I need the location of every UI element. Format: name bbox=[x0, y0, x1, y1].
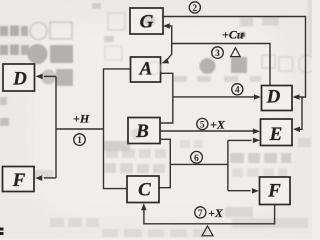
wire: reaction 5 from B right to E upper-left bbox=[160, 130, 256, 132]
wire: reaction 4 tee to D left bbox=[173, 96, 257, 98]
faint bottom text rows bbox=[50, 218, 64, 227]
arrowhead into C bottom (up) bbox=[141, 203, 147, 210]
svg-text:4: 4 bbox=[235, 86, 240, 96]
wire: reaction 7 from F bottom around to C bottom bbox=[144, 205, 275, 224]
svg-text:C: C bbox=[138, 179, 151, 200]
number 3 bbox=[212, 47, 224, 59]
box D left bbox=[3, 64, 35, 91]
wire: left vertical D-F bbox=[55, 76, 57, 177]
arrowhead into E lower-left bbox=[253, 138, 260, 144]
faint text middle-left bbox=[104, 141, 130, 151]
svg-text:F: F bbox=[267, 180, 281, 201]
arrowhead into A right bbox=[162, 58, 170, 63]
svg-text:6: 6 bbox=[194, 154, 199, 164]
wire: branch down into E right side bbox=[297, 97, 303, 129]
number 5 bbox=[197, 118, 208, 129]
wire: left bus from A left down to C left bbox=[104, 69, 131, 189]
box E bbox=[261, 119, 293, 146]
triangle delta (7) bbox=[202, 226, 213, 236]
condition labels bbox=[73, 28, 244, 221]
dark speck left of D-right bbox=[241, 33, 246, 38]
svg-text:G: G bbox=[140, 12, 154, 33]
svg-text:E: E bbox=[269, 124, 283, 145]
arrowhead into G right bbox=[163, 23, 170, 29]
svg-text:B: B bbox=[135, 121, 149, 142]
arrowhead into D left bbox=[254, 94, 261, 100]
filled grey circle bbox=[28, 44, 48, 64]
svg-text:2: 2 bbox=[192, 4, 197, 14]
number 6 bbox=[191, 151, 203, 163]
wire: reaction 2 from G right to D right side bbox=[163, 17, 306, 98]
box C bbox=[127, 176, 159, 203]
wire: into F left bbox=[228, 190, 251, 192]
wire: A right out, trunk down to B top-right bbox=[160, 73, 173, 123]
arrowhead into left F bbox=[35, 175, 42, 181]
svg-text:+H: +H bbox=[73, 112, 90, 126]
triangle delta (3) bbox=[231, 48, 241, 57]
box letters bbox=[12, 12, 283, 202]
svg-text:3: 3 bbox=[215, 49, 220, 59]
svg-text:7: 7 bbox=[198, 209, 203, 219]
box B bbox=[128, 118, 160, 144]
svg-text:F: F bbox=[12, 170, 26, 191]
faint square outline bbox=[50, 22, 72, 39]
number 4 bbox=[232, 84, 243, 95]
number 1 bbox=[74, 134, 86, 146]
box D right bbox=[262, 86, 293, 111]
svg-text:D: D bbox=[12, 68, 27, 89]
svg-text:+X: +X bbox=[208, 206, 224, 220]
wire: B bottom-right down trunk to C right bbox=[160, 139, 171, 187]
box G bbox=[130, 8, 163, 34]
row of blobs right of A bbox=[200, 58, 216, 74]
wire: into E lower-left bbox=[228, 139, 252, 141]
wire: trunk continues down into A right bbox=[167, 44, 172, 61]
wire: reaction 3 from D top up and left to G bbox=[166, 26, 270, 86]
arrowhead into E right bbox=[293, 127, 300, 133]
filled grey square bbox=[50, 45, 73, 63]
arrowhead into F left bbox=[252, 188, 259, 194]
number 7 bbox=[195, 207, 206, 218]
small dark mark at left edge bottom bbox=[0, 228, 4, 236]
faint text right-middle bbox=[230, 153, 244, 163]
box F right bbox=[260, 177, 291, 205]
svg-text:D: D bbox=[266, 87, 281, 108]
faint square outline near G bbox=[108, 13, 125, 30]
number 2 bbox=[189, 2, 200, 13]
bleed visible inside boxes bbox=[131, 14, 161, 140]
box F left bbox=[3, 167, 35, 192]
svg-text:1: 1 bbox=[77, 136, 82, 146]
faint circle outline bbox=[30, 23, 47, 40]
svg-text:+Cu: +Cu bbox=[222, 28, 244, 42]
wire: into left D bbox=[44, 75, 56, 77]
arrowhead into left D bbox=[36, 74, 43, 80]
arrowhead into D right bbox=[293, 94, 300, 100]
svg-text:5: 5 bbox=[200, 120, 205, 130]
wire: reaction 6 tee going right bbox=[170, 163, 228, 165]
circled reaction numbers bbox=[74, 2, 243, 219]
faint digit row under blobs bbox=[173, 76, 187, 82]
wire: vertical joining E lower-left and F left bbox=[227, 140, 229, 190]
top-left faint text rows bbox=[0, 26, 8, 36]
arrowhead into E upper-left bbox=[253, 128, 260, 134]
box A bbox=[131, 57, 161, 82]
svg-text:+X: +X bbox=[210, 118, 226, 132]
wire: into left F bbox=[44, 177, 56, 179]
svg-text:A: A bbox=[139, 59, 153, 80]
wire: rung reaction 1 bbox=[56, 128, 104, 130]
